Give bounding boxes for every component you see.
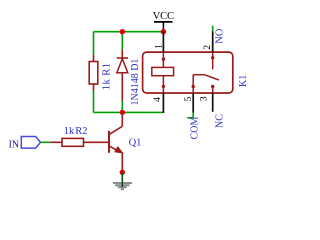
relay armature (common pole, pin 5): [192, 75, 219, 93]
ground: [113, 181, 132, 189]
wire bottom horizontal (collector node): [94, 111, 163, 113]
wire D1 top vertical: [121, 32, 123, 50]
svg-text:3: 3: [199, 96, 209, 101]
relay pin 3: [212, 93, 214, 112]
wire D1 bottom vertical: [121, 101, 123, 112]
junction dot at D1 tap on VCC rail: [120, 29, 125, 34]
relay pin 5: [187, 93, 193, 118]
svg-text:VCC: VCC: [153, 10, 174, 22]
svg-text:2: 2: [203, 45, 213, 50]
relay pin 2: [212, 26, 214, 52]
relay pin 4: [162, 93, 164, 113]
junction dot at emitter/ground: [120, 170, 125, 175]
junction dot at collector node: [120, 110, 125, 115]
relay pin 1: [162, 32, 164, 52]
svg-text:1N4148 D1: 1N4148 D1: [130, 59, 141, 106]
svg-text:Q1: Q1: [129, 138, 142, 149]
relay contact NO stub (pin 2): [211, 52, 214, 69]
svg-text:NO: NO: [215, 28, 226, 44]
wire emitter to ground: [121, 172, 123, 181]
input port IN: [9, 137, 41, 151]
relay K1 box: [143, 52, 233, 93]
relay coil: [152, 52, 174, 93]
svg-text:1kR2: 1kR2: [64, 126, 88, 137]
svg-text:1k R1: 1k R1: [101, 63, 112, 91]
junction dot at VCC terminal: [161, 29, 166, 34]
wire IN to R2: [41, 141, 51, 143]
svg-text:1: 1: [155, 44, 165, 49]
resistor R2: [50, 138, 109, 146]
svg-text:NC: NC: [214, 114, 225, 128]
svg-text:K1: K1: [238, 75, 249, 87]
svg-text:IN: IN: [9, 139, 20, 150]
relay NC contact stub (pin 3): [211, 85, 214, 93]
svg-text:5: 5: [184, 97, 194, 102]
wire VCC rail top horizontal: [94, 31, 164, 33]
resistor R1: [89, 55, 98, 91]
svg-text:4: 4: [153, 97, 163, 102]
wire R1 bottom vertical: [93, 91, 95, 112]
diode D1: [117, 50, 128, 102]
power symbol VCC: [153, 10, 174, 32]
transistor Q1: [109, 112, 123, 172]
wire R1 top vertical: [93, 32, 95, 55]
svg-text:COM: COM: [189, 117, 200, 140]
